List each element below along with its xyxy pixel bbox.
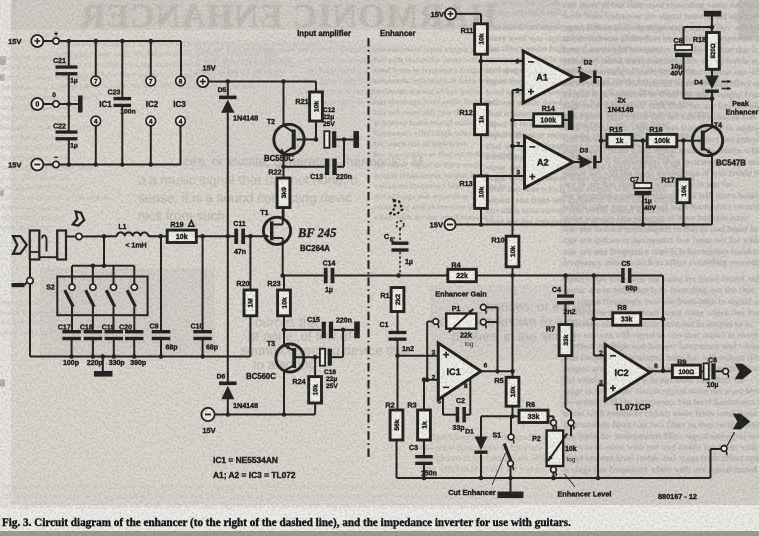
- wire P1 left leg: [427, 322, 432, 380]
- wire: [456, 14, 481, 24]
- resistor R21: [295, 82, 322, 140]
- wire IC2 pin2: [594, 355, 605, 357]
- transistor T1 JFET: [260, 210, 290, 245]
- ground chassis: [12, 282, 28, 287]
- arrow output ground: [733, 414, 750, 430]
- resistor R14: [513, 104, 568, 126]
- terminal +15V supply: [8, 35, 43, 47]
- wire IC1 pin2: [424, 378, 438, 383]
- potentiometer P2: [532, 431, 577, 467]
- capacitor C22: [53, 104, 78, 165]
- node: [69, 354, 205, 359]
- op-amp IC2: [599, 344, 658, 412]
- resistor R5: [494, 371, 519, 418]
- wire -15V rail: [215, 414, 316, 416]
- switch S1: [492, 416, 514, 480]
- capacitor C19: [102, 325, 125, 368]
- capacitor C12: [323, 107, 344, 148]
- connector jack input: [30, 231, 66, 260]
- wire: [631, 276, 663, 371]
- wire IC2 pin3: [596, 385, 606, 480]
- inductor L1: [117, 224, 149, 250]
- wire T2 emitter: [283, 154, 285, 167]
- resistor R6: [513, 400, 554, 423]
- wire -15V rail right: [456, 224, 712, 226]
- capacitor C17: [58, 325, 81, 368]
- wire bus to R20: [249, 316, 251, 357]
- terminal P1 right: [480, 319, 497, 328]
- op-amp IC1: [432, 343, 488, 400]
- label Input amplifier: [297, 29, 351, 38]
- wire +15V rail: [43, 40, 181, 42]
- wire S2 feed: [103, 236, 105, 265]
- capacitor C6: [700, 358, 722, 390]
- diode D6: [217, 374, 259, 417]
- capacitor C14: [323, 261, 336, 295]
- wire: [148, 234, 167, 239]
- arrow output signal: [735, 364, 752, 380]
- wire +15V: [208, 79, 316, 84]
- wire T2 base: [297, 137, 319, 142]
- wire divider: [479, 135, 484, 179]
- node: [67, 39, 154, 44]
- terminal P2 top: [551, 420, 557, 431]
- resistor R8: [592, 303, 666, 325]
- resistor R1: [380, 288, 404, 332]
- wire 0V: [43, 102, 78, 107]
- wire to enhancer: [335, 275, 399, 277]
- wire T4 collector: [711, 92, 713, 126]
- terminal pad -: [53, 155, 59, 168]
- resistor R11: [461, 24, 488, 54]
- bar output tag 2: [354, 322, 360, 339]
- transistor T2: [264, 119, 304, 163]
- wire C13 riser: [343, 140, 345, 167]
- label 2x 1N4148: [608, 96, 634, 115]
- capacitor C21: [53, 41, 78, 104]
- capacitor C9: [150, 236, 178, 356]
- wire: [245, 234, 263, 239]
- label BF245: [297, 226, 336, 240]
- node: [67, 162, 154, 167]
- wire P1 to output: [495, 307, 500, 373]
- capacitor C15: [284, 317, 354, 338]
- wire: [476, 273, 621, 278]
- resistor R16: [647, 125, 677, 147]
- pin8 comp: [464, 379, 470, 415]
- terminal -15V comparator: [430, 219, 456, 230]
- capacitor C5: [621, 261, 637, 293]
- resistor R7: [546, 325, 572, 420]
- capacitor C11: [233, 221, 246, 256]
- terminal pad +: [53, 31, 59, 44]
- terminal P1 left: [433, 319, 439, 328]
- label IC types: [213, 455, 296, 480]
- wire ground rail: [397, 477, 711, 479]
- wire: [601, 140, 607, 142]
- capacitor C20: [119, 325, 146, 368]
- terminal output gnd hook: [721, 432, 734, 455]
- resistor R3: [407, 378, 430, 456]
- IC2 supply pins: [146, 41, 159, 165]
- ground bar cut: [498, 478, 524, 498]
- diode D2: [573, 60, 601, 84]
- wire jack tip: [66, 236, 76, 238]
- wire divider: [479, 208, 484, 226]
- wire rail up: [711, 449, 721, 478]
- wire A2 pin3: [481, 175, 525, 177]
- wire T1 source: [282, 244, 284, 275]
- resistor R13: [459, 176, 487, 208]
- resistor R10: [491, 236, 518, 267]
- switch S2 pole 2: [86, 266, 96, 330]
- wire jack sleeve: [29, 260, 31, 278]
- wire IC2 out: [650, 369, 672, 374]
- capacitor C8: [670, 38, 692, 99]
- switch S2 pole 4: [127, 266, 137, 330]
- wire T4 emitter: [711, 155, 713, 225]
- wire A2 pin2: [510, 144, 524, 149]
- op-amp A2: [516, 136, 581, 188]
- arrow input: [13, 236, 27, 254]
- capacitor C18: [80, 325, 103, 368]
- wire diode join: [599, 77, 604, 162]
- resistor R23: [267, 276, 290, 330]
- capacitor C10: [191, 236, 218, 356]
- wire enhancer main: [396, 273, 447, 278]
- wire T2 collector: [283, 82, 285, 126]
- diode D3: [573, 148, 601, 169]
- wire: [677, 138, 701, 143]
- resistor R9: [672, 357, 700, 377]
- switch S2 box: [46, 277, 147, 316]
- wire S2 bus: [72, 264, 134, 269]
- resistor R19: [167, 220, 196, 243]
- potentiometer P1: [446, 306, 476, 348]
- wire signal column: [510, 90, 515, 236]
- wire to output tag: [344, 139, 353, 141]
- wire ground bus: [30, 356, 250, 358]
- terminal -15V supply: [8, 159, 43, 171]
- wire A1 pin5: [513, 89, 524, 91]
- capacitor C13: [284, 159, 352, 181]
- diode D1: [465, 416, 512, 480]
- wire: [684, 17, 715, 46]
- wire gate to D6: [227, 236, 229, 381]
- wire T3 base: [295, 355, 322, 360]
- wire T1 drain: [282, 208, 284, 218]
- terminal output hook: [723, 368, 729, 377]
- terminal pad sleeve: [27, 278, 33, 284]
- capacitor C7: [630, 141, 656, 227]
- wire pin2 node drop: [593, 276, 595, 356]
- label board number: [658, 492, 697, 501]
- label Peak Enhancer: [726, 99, 759, 117]
- terminal -15V input amp: [201, 408, 215, 435]
- transistor T4: [692, 123, 746, 168]
- terminal P2 wiper: [568, 420, 574, 436]
- wire IC1 output: [481, 369, 515, 374]
- resistor R20: [236, 236, 256, 315]
- arrow aux input: [73, 212, 84, 226]
- terminal P2 bottom: [551, 467, 557, 481]
- node T2 emitter: [281, 165, 286, 170]
- capacitor C4: [552, 276, 576, 325]
- capacitor C16: [320, 330, 343, 390]
- wire -15V rail: [43, 164, 181, 166]
- capacitor C3: [409, 445, 437, 480]
- resistor R12: [459, 104, 487, 134]
- label Enhancer: [380, 29, 416, 38]
- IC1 supply pins: [91, 41, 112, 165]
- node: [342, 137, 347, 142]
- label Enhancer Gain: [435, 290, 487, 299]
- wire: [632, 138, 647, 143]
- label BC264A: [300, 244, 330, 253]
- wire: [82, 234, 117, 239]
- terminal 0V: [31, 92, 59, 110]
- transistor T3: [246, 341, 304, 381]
- capacitor C1: [380, 322, 415, 356]
- resistor R4: [448, 261, 477, 282]
- diode D5: [218, 82, 259, 237]
- node: [395, 354, 400, 359]
- switch S2 pole 1: [65, 266, 75, 330]
- wire T3 emitter: [283, 330, 285, 345]
- resistor R24: [292, 357, 321, 414]
- wire R10 to main: [512, 267, 514, 372]
- label Cut Enhancer: [448, 453, 505, 497]
- terminal P1 wiper: [480, 304, 497, 313]
- ground bar: [94, 357, 113, 377]
- terminal +15V input amp: [197, 64, 215, 88]
- wire rail drop to IC3 pin8: [180, 41, 182, 76]
- wire T3 collector: [282, 372, 287, 417]
- bar +supply: [704, 11, 721, 17]
- wire: [283, 275, 324, 277]
- switch S2 pole 3: [106, 266, 116, 330]
- wire: [684, 92, 715, 101]
- wire to IC1 pin3: [398, 355, 439, 357]
- wire: [196, 234, 234, 239]
- bar output tag 1: [353, 131, 359, 148]
- label Enhancer Level: [558, 474, 612, 499]
- IC3 supply pins: [173, 76, 186, 164]
- capacitor C23: [108, 41, 136, 165]
- resistor R2: [385, 356, 403, 478]
- terminal +15V comparator: [431, 8, 456, 19]
- terminal pad jack: [76, 233, 82, 239]
- capacitor CE1 optional (dashed): [384, 200, 413, 275]
- wire sleeve to ground bus: [30, 284, 38, 357]
- wire A1 pin6: [481, 60, 523, 62]
- bar 0V connection: [78, 96, 83, 113]
- resistor R18: [693, 33, 719, 70]
- pin5 comp: [438, 397, 443, 415]
- diode D4 LED: [694, 69, 731, 93]
- node T3 emitter: [282, 328, 287, 333]
- ground bar R14: [568, 111, 574, 131]
- wire divider: [479, 54, 484, 104]
- node T1 source: [280, 273, 285, 278]
- resistor R22: [268, 167, 289, 218]
- op-amp A1: [515, 51, 581, 103]
- resistor R17: [661, 141, 689, 227]
- resistor R15: [607, 125, 632, 147]
- capacitor C2: [443, 398, 470, 432]
- dashed separator line: [367, 38, 369, 459]
